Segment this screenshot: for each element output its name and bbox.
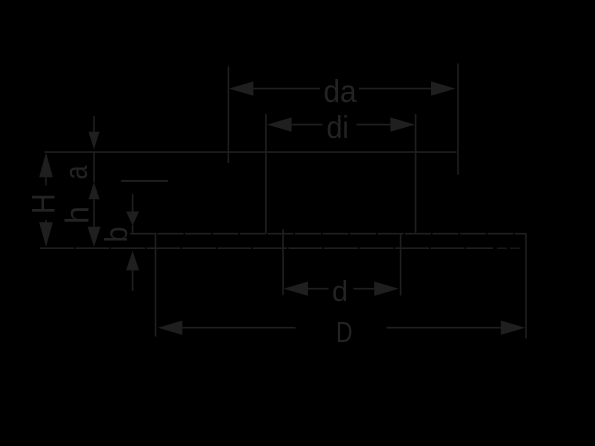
dimension line D: [182, 327, 295, 329]
dimension column b lower stub: [132, 270, 134, 291]
arrowhead da left: [229, 81, 254, 95]
svg-text:D: D: [336, 317, 353, 349]
dimension line d: [308, 288, 329, 290]
arrowhead a/h up: [89, 182, 100, 199]
arrowhead H down: [39, 222, 53, 247]
inner level dash: [121, 180, 168, 182]
extension line d left: [282, 229, 284, 295]
arrowhead di left: [267, 117, 292, 131]
arrowhead D left: [158, 321, 183, 335]
svg-text:d: d: [332, 276, 348, 308]
dimension column b upper stub: [132, 194, 134, 212]
arrowhead b up: [126, 251, 139, 271]
plate top edge: [130, 233, 526, 235]
arrowhead b down: [126, 212, 139, 226]
plate bottom edge faint continuation: [497, 247, 523, 249]
dimension column H upper stub: [45, 177, 47, 185]
extension line d right: [400, 234, 402, 296]
extension line da left: [227, 67, 229, 164]
arrowhead H up: [39, 153, 53, 178]
dimension column H lower stub: [45, 220, 47, 223]
svg-text:H: H: [26, 194, 62, 215]
svg-text:da: da: [324, 73, 357, 109]
dimension line da: [253, 88, 320, 90]
arrowhead h down: [88, 227, 101, 247]
dimension column a/h middle segment: [93, 199, 95, 227]
extension line di right: [415, 114, 417, 234]
extension line da right: [457, 64, 459, 175]
arrowhead da right: [431, 81, 456, 95]
arrowhead d left: [284, 282, 309, 296]
arrowhead d right: [374, 282, 399, 296]
arrowhead di right: [390, 117, 415, 131]
dimension line a span: [93, 153, 95, 183]
extension line D left: [155, 234, 157, 337]
svg-text:b: b: [98, 227, 134, 243]
svg-text:a: a: [58, 165, 94, 179]
plate bottom edge: [40, 247, 493, 249]
dimension line di: [292, 124, 323, 126]
arrowhead a down: [89, 132, 100, 150]
svg-text:h: h: [59, 206, 96, 224]
svg-text:di: di: [327, 109, 349, 145]
arrowhead D right: [501, 321, 526, 335]
dimension column a upper stub: [93, 116, 95, 132]
plate right edge / extension line D right: [525, 234, 527, 339]
extension line di left: [265, 114, 267, 234]
top surface line: [45, 151, 457, 153]
